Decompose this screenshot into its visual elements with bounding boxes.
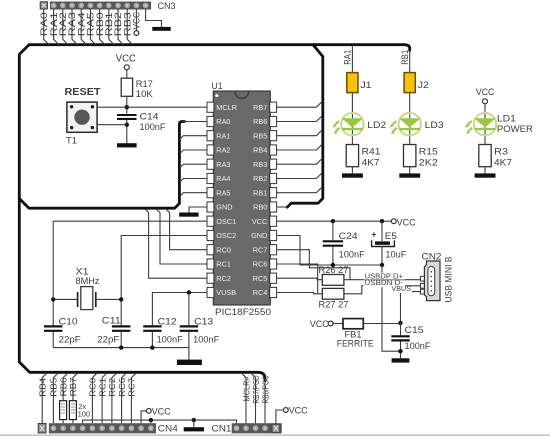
svg-text:E5: E5 <box>385 231 397 241</box>
wire RB2 tap <box>276 173 321 178</box>
crystal X1 <box>78 287 96 310</box>
connector CN3 strip <box>50 2 151 10</box>
wire RC7 to bus <box>131 374 135 424</box>
wire RA3 to bus <box>72 8 77 44</box>
capacitor C24 <box>323 241 343 245</box>
wire RB7 to bus <box>73 374 77 401</box>
svg-text:C15: C15 <box>405 325 424 335</box>
wire RB6 lower <box>62 420 64 424</box>
wire R3 to ground <box>484 167 486 174</box>
svg-text:RA1: RA1 <box>216 131 230 140</box>
capacitor C13 <box>180 326 198 330</box>
svg-text:RA4: RA4 <box>216 174 230 183</box>
VCC terminal FB1 <box>328 321 333 326</box>
svg-text:RB6: RB6 <box>253 117 267 126</box>
wire OSC2 <box>121 236 207 326</box>
svg-text:+: + <box>371 229 376 239</box>
svg-text:C13: C13 <box>194 316 213 326</box>
svg-text:C11: C11 <box>102 316 121 326</box>
pin 2 RA0 (left) <box>207 116 231 126</box>
svg-text:R26 27: R26 27 <box>319 265 349 275</box>
LED LD2 <box>333 113 364 135</box>
wire RC2 to bus <box>112 374 116 424</box>
VCC terminal (reset) <box>124 65 129 70</box>
svg-text:RB7: RB7 <box>253 103 267 112</box>
node dot C11 gnd <box>119 345 123 349</box>
net label USBDN D- <box>364 280 406 287</box>
wire RA2 to bus <box>63 8 68 44</box>
wire RB3 tap <box>276 159 321 164</box>
jumper J2 <box>404 73 415 93</box>
pin 3 RA1 (left) <box>207 131 231 141</box>
wire E5 to gnd line <box>381 247 383 266</box>
pin 10 OSC2 (left) <box>207 230 236 240</box>
wire to C15 <box>400 323 402 335</box>
svg-text:PIC18F2550: PIC18F2550 <box>215 307 271 318</box>
bus trunk: top edge, left edge, bottom edge <box>19 45 409 381</box>
resistor R17 <box>121 78 132 96</box>
resistor R15 <box>404 145 416 167</box>
wire C12 down <box>151 332 153 348</box>
svg-text:10K: 10K <box>136 89 153 99</box>
wire xtal left <box>53 298 77 300</box>
wire VCC to FB1 <box>333 323 343 325</box>
svg-text:VBUS: VBUS <box>392 286 412 293</box>
wire MCLR to bus <box>242 374 246 423</box>
wire RA4 to bus <box>81 8 86 44</box>
resistor RB6 100 <box>60 401 67 420</box>
wire VCC to LD1 <box>484 104 486 145</box>
svg-text:RB3: RB3 <box>253 160 267 169</box>
svg-text:RB2: RB2 <box>253 174 267 183</box>
wire J1 to LD2 <box>351 93 353 145</box>
svg-text:RESET: RESET <box>65 86 102 98</box>
wire RB4 to bus <box>42 374 46 424</box>
wire RC6 step <box>276 264 317 294</box>
wire gnd drop to bar <box>382 265 401 351</box>
svg-text:VUSB: VUSB <box>216 288 236 297</box>
wire FB1 to VBUS node <box>363 323 400 325</box>
ground LD3 <box>399 173 420 177</box>
resistor R3 <box>479 145 491 167</box>
svg-text:4K7: 4K7 <box>494 158 512 168</box>
wire gnd rail caps <box>53 348 189 360</box>
wire RA4 tap <box>180 179 207 183</box>
wire button bottom to gnd node <box>97 124 127 126</box>
VCC terminal CN4 <box>146 409 151 414</box>
svg-text:RB7/PGD: RB7/PGD <box>252 375 261 403</box>
wire to bottom gnd bar <box>193 420 195 427</box>
svg-text:22pF: 22pF <box>59 334 82 344</box>
wire C13 down <box>188 332 190 348</box>
svg-text:RC1: RC1 <box>98 377 107 397</box>
svg-text:100: 100 <box>78 409 91 418</box>
svg-text:C10: C10 <box>59 316 78 326</box>
node dot E5 bottom <box>380 263 384 267</box>
wire USBDP line <box>344 279 421 281</box>
svg-text:VCC: VCC <box>310 319 329 329</box>
svg-text:RC6: RC6 <box>118 377 127 397</box>
capacitor C12 <box>143 326 161 330</box>
wire gnd pin CN4 <box>150 420 152 423</box>
resistor R26 <box>322 275 344 286</box>
wire VUSB to C12 <box>152 293 207 326</box>
svg-text:USB MINI B: USB MINI B <box>444 257 454 303</box>
svg-text:MCLR: MCLR <box>216 103 237 112</box>
pin 25 RB4 (right) <box>253 145 277 155</box>
wire VBUS line <box>401 292 422 323</box>
svg-text:RB4: RB4 <box>38 377 47 397</box>
node dot C12 gnd <box>150 345 154 349</box>
bottom edge line <box>0 434 550 436</box>
LED LD3 <box>390 113 421 135</box>
wire RA3 tap <box>180 164 207 168</box>
svg-text:R41: R41 <box>362 146 381 156</box>
wire R17 to C14 <box>126 96 128 113</box>
wire OSC1 <box>53 221 207 325</box>
VCC terminal circle <box>134 31 139 36</box>
node dot VBUS/C15 <box>398 321 402 325</box>
svg-text:100nF: 100nF <box>157 334 183 344</box>
svg-text:R15: R15 <box>419 146 438 156</box>
connector CN4 strip <box>49 423 156 433</box>
wire RC1 tap <box>157 209 208 264</box>
capacitor E5 electrolytic <box>371 229 394 246</box>
wire MCLR <box>127 106 207 108</box>
pin 14 VUSB (left) <box>207 287 236 297</box>
ferrite FB1 <box>343 319 363 329</box>
node dot below C14 <box>125 123 129 127</box>
pin 17 RC6 (right) <box>253 259 277 269</box>
svg-text:8MHz: 8MHz <box>76 276 100 286</box>
node MCLR dot <box>125 105 129 109</box>
svg-text:2K2: 2K2 <box>419 158 438 168</box>
wire C14 to ground <box>126 120 128 143</box>
node dot gnd bar bottom <box>192 418 196 422</box>
net label USBDP D+ <box>364 273 406 281</box>
svg-text:CN4: CN4 <box>158 424 178 434</box>
LED LD1 <box>465 113 496 135</box>
svg-text:100nF: 100nF <box>405 341 431 351</box>
svg-text:VCC: VCC <box>116 52 136 64</box>
svg-text:CN3: CN3 <box>158 1 176 11</box>
VCC terminal rail <box>391 219 396 224</box>
wire RC6 to bus <box>122 374 126 424</box>
pin 18 RC7 (right) <box>253 245 277 255</box>
wire RB5 tap <box>276 131 321 136</box>
svg-text:RC2: RC2 <box>108 377 117 397</box>
pin 9 OSC1 (left) <box>207 216 236 226</box>
wire GND pin <box>146 8 162 27</box>
wire RA0 from bus <box>183 121 207 123</box>
pin 15 RC4 (right) <box>253 287 277 297</box>
wire R15 to ground <box>409 167 411 174</box>
wire VCC to R17 <box>126 70 128 78</box>
resistor R27 <box>322 288 344 299</box>
svg-text:RA0: RA0 <box>216 117 230 126</box>
svg-text:RB0: RB0 <box>253 203 267 212</box>
wire RA1 tap <box>180 136 207 140</box>
svg-text:RB5: RB5 <box>50 377 59 397</box>
resistor RB7 100 <box>69 401 76 420</box>
ground CN3 <box>152 27 170 31</box>
pin 7 RA5 (left) <box>207 188 231 198</box>
wire RA1 to bus <box>54 8 59 44</box>
wire RB6 to bus <box>63 374 67 401</box>
svg-text:VCC: VCC <box>252 217 267 226</box>
wire RC0 tap <box>166 209 207 250</box>
wire to E5 <box>381 221 383 241</box>
svg-text:POWER: POWER <box>497 124 534 134</box>
bus left branch: to RA0 pin <box>19 122 184 209</box>
wire bus to J1 <box>351 46 353 72</box>
wire RC2 tap <box>145 209 207 278</box>
svg-text:RA2: RA2 <box>216 146 230 155</box>
svg-text:100nF: 100nF <box>140 122 166 132</box>
CN1 VCC pin square <box>272 424 280 432</box>
wire C24 to gnd line <box>332 247 334 265</box>
wire xtal right <box>96 298 121 300</box>
svg-text:RA0: RA0 <box>39 12 49 36</box>
capacitor C10 <box>44 326 62 330</box>
wire VCC pin <box>135 8 137 30</box>
ground reset <box>117 143 137 147</box>
capacitor C15 <box>391 336 409 340</box>
net label VBUS <box>390 286 413 293</box>
svg-text:R17: R17 <box>136 79 153 89</box>
wire RC4 to R27 <box>276 293 322 294</box>
svg-text:RC2: RC2 <box>216 274 231 283</box>
VCC terminal LD1 <box>483 99 488 104</box>
svg-text:OSC1: OSC1 <box>216 217 236 226</box>
pin 13 RC2 (left) <box>207 273 231 283</box>
ground bottom <box>184 427 204 431</box>
wire RC0 to bus <box>92 374 96 424</box>
wire to C24 <box>332 221 334 240</box>
svg-text:VCC: VCC <box>132 12 142 30</box>
svg-text:VCC: VCC <box>476 87 495 97</box>
value 2x 100 <box>78 402 91 418</box>
svg-text:RB6: RB6 <box>59 377 68 397</box>
wire C15 to gnd <box>400 342 402 359</box>
resistor R41 <box>346 145 358 167</box>
svg-text:J1: J1 <box>361 80 372 90</box>
wire RB0 to bus <box>276 206 287 208</box>
wire RB7 tap <box>276 102 321 107</box>
pin 8 GND (left) <box>207 202 233 212</box>
svg-text:FERRITE: FERRITE <box>337 338 374 348</box>
svg-text:4K7: 4K7 <box>362 158 380 168</box>
CN3 pin 1 square <box>40 2 47 9</box>
node dot C24 bottom <box>331 263 335 267</box>
wire RB6 tap <box>276 116 321 121</box>
svg-text:RC1: RC1 <box>216 260 231 269</box>
BOTTOM <box>38 374 308 434</box>
svg-text:RC6: RC6 <box>253 260 268 269</box>
wire RB4 tap <box>276 145 321 150</box>
svg-text:T1: T1 <box>66 136 77 146</box>
pin 5 RA3 (left) <box>207 159 231 169</box>
ground LD1 <box>475 173 496 177</box>
pin 16 RC5 (right) <box>253 273 277 283</box>
CN4 pin 1 square <box>38 424 46 433</box>
wire VCC rail from chip <box>276 220 391 222</box>
svg-text:MCLR#: MCLR# <box>242 376 251 402</box>
RIGHT <box>276 46 533 362</box>
wire GND pin left <box>189 207 207 213</box>
node dot gnd pin CN4 <box>149 418 153 422</box>
wire USBDN line <box>344 286 421 294</box>
MAIN-BUS <box>19 45 409 381</box>
node VUSB dot <box>187 290 191 294</box>
wire RA2 tap <box>180 150 207 154</box>
ground chip left <box>179 213 198 217</box>
pin 1 MCLR (left) <box>207 102 237 112</box>
CN3 pins <box>51 3 149 9</box>
CN1 pins <box>234 425 268 431</box>
pin 19 GND (right) <box>251 230 277 240</box>
svg-text:CN2: CN2 <box>422 251 442 261</box>
pin 26 RB5 (right) <box>253 131 277 141</box>
svg-text:RC5: RC5 <box>253 274 268 283</box>
wire RB7 lower <box>72 420 74 424</box>
svg-text:RC7: RC7 <box>128 377 137 397</box>
wire VUSB to C13 <box>188 293 190 326</box>
wire bus to J2 <box>409 50 411 73</box>
wire gnd rail bottom <box>83 420 237 423</box>
node dot osc1 <box>51 297 55 301</box>
svg-text:22pF: 22pF <box>97 334 120 344</box>
svg-text:RB1: RB1 <box>400 50 410 65</box>
svg-text:RC0: RC0 <box>216 245 231 254</box>
pin 12 RC1 (left) <box>207 259 231 269</box>
CHIPWIRES <box>53 102 321 325</box>
svg-text:GND: GND <box>216 203 232 212</box>
svg-text:RA5: RA5 <box>216 188 230 197</box>
svg-text:RC7: RC7 <box>253 245 268 254</box>
wire RC1 to bus <box>102 374 106 424</box>
svg-text:C24: C24 <box>339 231 358 241</box>
wire C10 down <box>52 332 54 348</box>
node dot gnd join <box>398 349 402 353</box>
svg-text:RC0: RC0 <box>89 377 98 397</box>
wire RB0 to bus <box>100 8 105 44</box>
wire RA5 to bus <box>90 8 95 44</box>
pin 6 RA4 (left) <box>207 173 231 183</box>
wire RA0 to bus <box>44 9 49 45</box>
wire RB2 to bus <box>118 8 123 44</box>
wire RB5 to bus <box>53 374 57 424</box>
svg-text:10uF: 10uF <box>385 249 407 259</box>
svg-text:LD1: LD1 <box>497 114 516 124</box>
wire RB3 to bus <box>127 8 132 44</box>
connector CN1 strip <box>232 423 282 433</box>
wire RB1 tap <box>276 188 321 193</box>
svg-text:RB6/PGC: RB6/PGC <box>261 375 270 403</box>
capacitor C11 <box>112 326 130 330</box>
svg-text:CN1: CN1 <box>212 424 232 434</box>
svg-text:J2: J2 <box>418 80 429 90</box>
svg-text:VCC: VCC <box>289 406 308 416</box>
wire R41 to ground <box>351 167 353 174</box>
svg-text:LD3: LD3 <box>425 120 444 130</box>
wire C11 down <box>120 332 122 348</box>
svg-text:RB5: RB5 <box>253 131 267 140</box>
pushbutton T1 <box>67 102 97 132</box>
node dot C24 top <box>331 219 335 223</box>
ground USB <box>392 358 410 362</box>
pin 22 RB1 (right) <box>253 188 277 198</box>
svg-text:RC4: RC4 <box>253 288 268 297</box>
svg-text:100nF: 100nF <box>339 249 365 259</box>
svg-text:VCC: VCC <box>397 217 416 227</box>
svg-text:RB4: RB4 <box>253 146 267 155</box>
ground LD2 <box>342 173 363 177</box>
IC U1 PIC18F2550 body <box>213 91 270 305</box>
jumper J1 <box>347 73 358 93</box>
bus right branch: down right side of chip to RB0 <box>287 45 323 207</box>
CRYSTAL <box>44 267 220 365</box>
svg-text:U1: U1 <box>212 81 223 91</box>
capacitor C14 <box>117 115 137 119</box>
svg-text:100nF: 100nF <box>193 334 219 344</box>
pin 24 RB3 (right) <box>253 159 277 169</box>
svg-text:C14: C14 <box>140 111 159 121</box>
svg-text:VCC: VCC <box>152 407 171 417</box>
wire RA5 tap <box>180 193 207 197</box>
svg-text:RA3: RA3 <box>216 160 230 169</box>
pin 11 RC0 (left) <box>207 245 231 255</box>
CHIP <box>207 81 277 318</box>
wire PGD to bus <box>252 374 256 423</box>
pin 20 VCC (right) <box>252 216 277 226</box>
pin 23 RB2 (right) <box>253 173 277 183</box>
svg-text:R27 27: R27 27 <box>319 299 349 309</box>
wire button top to MCLR node <box>97 106 127 108</box>
VCC terminal CN1 <box>283 408 288 413</box>
pin 28 RB7 (right) <box>253 102 277 112</box>
wire RC7 step <box>276 250 350 280</box>
wire J2 to LD3 <box>409 93 411 145</box>
svg-text:RA1: RA1 <box>343 50 353 65</box>
svg-text:RB1: RB1 <box>253 188 267 197</box>
RESET <box>65 52 166 147</box>
wire VCC tap CN4 <box>141 411 146 423</box>
node dot E5 top <box>380 219 384 223</box>
CN4 pins <box>51 425 154 431</box>
pin 21 RB0 (right) <box>253 202 277 212</box>
svg-text:GND: GND <box>251 231 267 240</box>
wire VCC tap CN1 <box>276 410 284 424</box>
pin 4 RA2 (left) <box>207 145 231 155</box>
svg-text:C12: C12 <box>158 316 177 326</box>
pin 27 RB6 (right) <box>253 116 277 126</box>
svg-text:RB7: RB7 <box>69 377 78 397</box>
wire PGC from bus <box>264 380 266 423</box>
wire RB1 to bus <box>109 8 114 44</box>
svg-text:OSC2: OSC2 <box>216 231 236 240</box>
node dot osc2 <box>119 297 123 301</box>
ground crystal <box>177 360 202 365</box>
svg-text:LD2: LD2 <box>367 120 386 130</box>
connector CN2 USB MINI B <box>421 261 441 301</box>
CN3 <box>39 1 176 45</box>
wire RC5 to R26 <box>276 278 322 280</box>
svg-text:R3: R3 <box>494 146 508 156</box>
wire GND net right <box>276 236 382 266</box>
